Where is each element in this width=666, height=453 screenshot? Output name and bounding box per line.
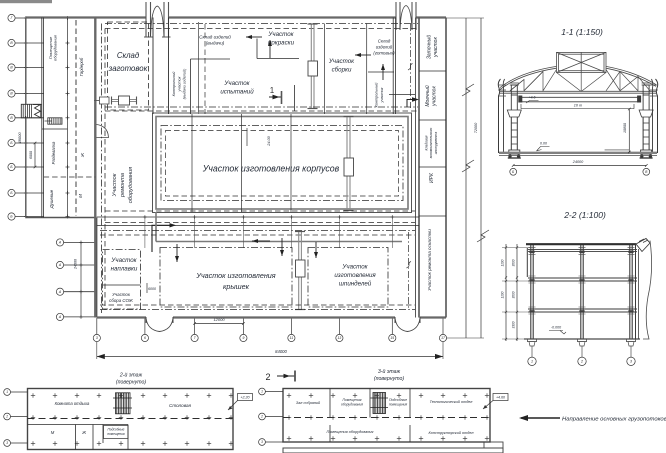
room label Кладовая вспом инструмента	[425, 128, 438, 159]
crane zone dashdot top lines	[105, 23, 418, 25]
transition dashed y211	[105, 210, 415, 212]
svg-text:сборки: сборки	[332, 66, 352, 73]
svg-text:3000: 3000	[512, 291, 516, 298]
flow arrow lower band 3	[314, 242, 318, 258]
section 1-1 axis circle left	[510, 168, 517, 175]
svg-text:Технологический отдел: Технологический отдел	[430, 400, 474, 404]
hall inner dashed rect 2	[166, 131, 399, 197]
svg-text:2: 2	[260, 415, 263, 419]
svg-text:(выдачи изделий): (выдачи изделий)	[183, 68, 187, 99]
svg-text:Помещения: Помещения	[343, 398, 362, 402]
cargo flow arrow	[519, 415, 560, 421]
dimension 24000 section	[512, 160, 648, 167]
svg-text:-0.000: -0.000	[551, 326, 561, 330]
dimension 6000 lower	[147, 283, 156, 293]
svg-text:Комната отдыха: Комната отдыха	[55, 401, 90, 406]
svg-text:24000: 24000	[74, 259, 78, 270]
L arrow to right rooms	[407, 97, 419, 107]
svg-text:(повернуто): (повернуто)	[116, 379, 146, 385]
svg-text:Участок: Участок	[110, 257, 137, 264]
break squiggle x410	[408, 64, 413, 71]
svg-text:Участок: Участок	[328, 58, 355, 65]
dimension 48000 left	[17, 132, 22, 144]
svg-text:3: 3	[630, 360, 632, 364]
strip2 outer walls	[283, 389, 490, 443]
strip1 mid partition dashed	[28, 418, 234, 420]
section 1-1 left column	[507, 83, 522, 158]
naplavka dashdot rect	[103, 250, 141, 309]
flow arrow lower band horizontal	[252, 239, 270, 243]
svg-text:Контрольный: Контрольный	[172, 71, 176, 97]
partition right room divider y120	[419, 119, 446, 121]
partition x294 short	[294, 85, 296, 111]
partition x393 double vertical	[392, 18, 394, 115]
partition annex y177 dashed	[44, 176, 96, 178]
svg-text:+2.20: +2.20	[240, 396, 249, 400]
partition x324 vertical	[324, 24, 326, 115]
section 1-1 left wall panel	[498, 79, 506, 153]
room label Помещение оборудования	[48, 34, 57, 61]
svg-text:3-й этаж: 3-й этаж	[378, 368, 401, 375]
svg-text:24000: 24000	[572, 160, 584, 164]
room label Участок ремонта оборудования	[112, 167, 134, 203]
partition y58 horiz	[257, 58, 299, 60]
svg-text:Участок ремонта оснастки: Участок ремонта оснастки	[427, 229, 432, 291]
arrow pokraska down	[268, 40, 272, 58]
svg-text:Склад: Склад	[378, 39, 391, 44]
svg-text:Участок: Участок	[341, 264, 368, 271]
svg-text:48000: 48000	[17, 132, 22, 144]
svg-text:84000: 84000	[275, 349, 287, 354]
wall left annex outer	[25, 18, 27, 105]
dimension 24.00 in hall	[247, 128, 271, 147]
svg-text:1100: 1100	[501, 259, 505, 266]
hall left dashdot boundary	[101, 24, 103, 314]
svg-text:(готовых): (готовых)	[373, 50, 395, 55]
svg-text:участок: участок	[380, 87, 384, 103]
svg-text:М: М	[51, 430, 55, 435]
svg-text:1-1 (1:150): 1-1 (1:150)	[561, 27, 603, 37]
wall top main	[26, 16, 146, 18]
wall annex inner double	[41, 18, 43, 218]
svg-text:3: 3	[6, 441, 8, 445]
partition dashed x76	[75, 20, 77, 216]
svg-text:Ж: Ж	[80, 152, 85, 158]
svg-text:испытаний: испытаний	[220, 88, 254, 95]
wall bottom main segment 3	[420, 316, 446, 318]
svg-text:72000: 72000	[474, 122, 478, 133]
dashdot boundary x408	[408, 232, 410, 309]
arrow control up	[381, 64, 385, 80]
section 2-2 left wall stub	[526, 248, 528, 277]
svg-text:24.00: 24.00	[267, 135, 271, 146]
wall top segment 2	[169, 16, 397, 18]
wall main left thick x95	[94, 18, 96, 318]
svg-text:6000: 6000	[29, 151, 33, 159]
wall lower band left x96.5	[96, 218, 98, 318]
hall main rect inner wall	[156, 117, 408, 210]
section 2-2 axis circles	[528, 357, 635, 365]
arrow into sklad izdeliy	[246, 35, 262, 39]
partition annex y129	[42, 128, 68, 130]
section 2-2 right wall	[636, 239, 652, 340]
grid row circles А lower left	[56, 239, 97, 321]
svg-text:Склад изделий: Склад изделий	[199, 34, 231, 40]
svg-text:Участок: Участок	[267, 31, 294, 38]
svg-text:участок: участок	[177, 76, 181, 92]
svg-text:10 т: 10 т	[574, 103, 582, 107]
svg-text:3: 3	[96, 336, 98, 340]
svg-text:Контрольный: Контрольный	[375, 82, 379, 108]
svg-text:оборудования: оборудования	[53, 34, 58, 61]
hall main rect outer	[153, 113, 412, 213]
equipment line lower band x300	[295, 231, 305, 310]
svg-text:М: М	[78, 194, 83, 198]
section 1-1 axis circle right	[643, 168, 650, 175]
partition right room divider y167	[419, 166, 446, 168]
strip1 axis circles left	[4, 389, 28, 447]
flow arrow lower band 2	[280, 238, 284, 256]
svg-text:0.00: 0.00	[540, 142, 547, 146]
svg-text:Раздевалка: Раздевалка	[51, 141, 56, 164]
flow arrow lower band 1	[175, 244, 179, 262]
svg-text:Конструкторский отдел: Конструкторский отдел	[429, 431, 475, 435]
section 2-2 columns	[528, 245, 636, 357]
strip1 vertical partitions	[76, 425, 128, 450]
svg-text:3300: 3300	[512, 321, 516, 328]
wall annex bottom	[26, 217, 97, 219]
scan artifact bar	[0, 0, 52, 3]
svg-text:Подсобные: Подсобные	[389, 398, 407, 402]
svg-text:9: 9	[242, 336, 244, 340]
dashdot vertical x410	[410, 24, 412, 108]
partition x366 vertical	[366, 24, 368, 115]
door bottom-right double leaf	[395, 317, 420, 332]
entrance porch with steps left wall	[21, 104, 41, 118]
grid line axis x67	[67, 18, 69, 218]
corridor line y94	[389, 94, 415, 96]
machine at left wall y100	[94, 97, 109, 104]
svg-text:инструмента: инструмента	[434, 132, 438, 155]
kryshek dashdot rect	[160, 248, 292, 308]
lower band top partition	[97, 225, 419, 227]
grid column circles bottom row	[93, 318, 446, 342]
lower band dashdot lines	[100, 230, 415, 232]
svg-text:Подсобные: Подсобные	[108, 427, 125, 431]
strip2 vertical partitions	[330, 389, 410, 443]
dimension 6000 left small	[29, 142, 36, 169]
svg-text:помещения: помещения	[107, 432, 124, 436]
strip2 lower wing	[283, 448, 503, 453]
lower band wall y241	[156, 241, 402, 243]
svg-text:Направление основных грузопото: Направление основных грузопотоков	[562, 417, 666, 423]
svg-text:помещения: помещения	[389, 402, 407, 406]
svg-text:Душевые: Душевые	[49, 189, 54, 209]
svg-text:2-й этаж: 2-й этаж	[119, 371, 143, 378]
door annex to hall arc	[97, 125, 109, 138]
svg-text:(выдачи): (выдачи)	[206, 41, 225, 46]
svg-text:2: 2	[265, 372, 270, 382]
partition right room divider y216	[419, 215, 446, 217]
svg-text:Кладовая: Кладовая	[425, 135, 429, 150]
door top-right double leaf	[396, 2, 416, 30]
svg-text:оборудования: оборудования	[341, 402, 363, 406]
svg-text:1: 1	[6, 390, 8, 394]
strip1 column crosses	[31, 393, 233, 445]
svg-text:Участок изготовления: Участок изготовления	[195, 271, 275, 280]
room label Участок ремонта оснастки	[427, 229, 432, 291]
svg-text:17: 17	[441, 336, 445, 340]
svg-text:1: 1	[270, 86, 275, 95]
dimension 12000 between axes 7 and 9	[193, 317, 244, 325]
svg-text:1100: 1100	[501, 291, 505, 298]
svg-text:изделий: изделий	[376, 45, 393, 50]
svg-text:13: 13	[338, 336, 342, 340]
wall right outer x446	[445, 18, 447, 318]
room label Моечный участок	[424, 85, 438, 107]
stair flight symbol annex	[45, 118, 63, 124]
flow arrow L-shape below hall	[152, 223, 176, 252]
elevation 0.00	[537, 142, 550, 151]
svg-text:Моечный: Моечный	[424, 85, 431, 106]
room label Душевые	[49, 189, 54, 209]
svg-text:Склад: Склад	[117, 51, 140, 60]
partition naplavka y285	[103, 284, 141, 286]
section 1-1 floor underline	[499, 155, 657, 157]
partition x168 top band	[168, 18, 170, 115]
strip1 stair hatch	[113, 393, 132, 414]
equipment line hall center x348	[344, 116, 354, 211]
svg-text:15: 15	[390, 336, 394, 340]
strip2 elevation flag +4.60	[483, 394, 508, 410]
svg-text:2: 2	[5, 415, 8, 419]
strip2 stair hatch	[371, 393, 389, 414]
section 2-2 floor slabs	[524, 244, 640, 339]
equipment conveyor sklad zagotovok	[111, 96, 137, 105]
wall bottom main segment 2	[173, 316, 395, 318]
svg-text:6: 6	[144, 336, 146, 340]
section 1-1 crane beam	[520, 97, 641, 108]
svg-text:Участок: Участок	[223, 80, 250, 87]
room label Контрольный участок выдачи	[172, 68, 186, 99]
truss section 1-1	[500, 52, 656, 93]
svg-text:2: 2	[580, 360, 583, 364]
svg-text:6000: 6000	[148, 287, 156, 291]
svg-text:1: 1	[531, 360, 533, 364]
svg-text:сбора СОЖ: сбора СОЖ	[109, 298, 134, 303]
svg-text:шпинделей: шпинделей	[339, 281, 372, 288]
shpindel dashdot rect	[308, 248, 388, 308]
section 2-2 left dimension chains	[501, 244, 531, 341]
strip2 axis circles left	[259, 388, 283, 445]
skl zag dashed rect	[108, 22, 149, 110]
axis verticals transition	[143, 215, 394, 248]
hall left wall extension down	[155, 212, 157, 242]
partition right room divider y71	[419, 70, 446, 72]
strip1 lower partition	[28, 424, 129, 426]
strip2 mid partition dashed	[283, 417, 490, 419]
dimension 24000 lower-left	[74, 242, 82, 317]
arrow to sklad gotovyh	[355, 53, 371, 57]
strip1 outer walls	[28, 389, 234, 450]
partition x205 dashed	[204, 24, 206, 114]
svg-text:заготовок: заготовок	[108, 64, 148, 73]
door bottom-left double leaf	[146, 317, 173, 332]
hall inner dashdot rect	[161, 126, 403, 201]
svg-text:крышек: крышек	[223, 282, 250, 291]
strip1 room label Подсобные помещения	[104, 426, 129, 439]
strip1 elevation flag +2.20	[228, 394, 253, 411]
dimension 84000 overall bottom	[97, 342, 443, 359]
partition y72 top band	[368, 71, 394, 73]
elevation +4.6	[526, 96, 539, 103]
lower band bottom dashdot	[100, 304, 415, 306]
svg-text:вспомогательного: вспомогательного	[429, 128, 433, 159]
svg-text:Б: Б	[512, 170, 514, 174]
room label Заточный участок	[425, 35, 439, 60]
dimension 72000 right vertical	[446, 18, 489, 338]
strip2 bottom step right	[484, 442, 503, 448]
partition x153 top band	[152, 18, 154, 115]
svg-text:3: 3	[261, 440, 263, 444]
svg-text:Участок изготовления корпусов: Участок изготовления корпусов	[202, 164, 340, 174]
svg-text:ИРК: ИРК	[429, 172, 435, 183]
equipment line top band x312	[308, 24, 318, 110]
svg-text:+4.60: +4.60	[496, 396, 505, 400]
svg-text:+4.6: +4.6	[528, 96, 535, 100]
partition x190 top band	[190, 59, 192, 114]
svg-text:2-2 (1:100): 2-2 (1:100)	[563, 210, 606, 220]
grid row circles left column	[8, 14, 70, 220]
dimension 10800 vertical	[605, 108, 631, 154]
wall top segment 3	[416, 16, 446, 18]
svg-text:покраски: покраски	[268, 39, 295, 46]
section 1-1 right wall panel	[650, 79, 658, 153]
transition dashed y222	[105, 222, 415, 224]
svg-text:Участок: Участок	[112, 173, 118, 197]
wall bottom main segment 1	[97, 316, 146, 318]
svg-text:наплавки: наплавки	[111, 265, 138, 272]
svg-text:изготовления: изготовления	[334, 272, 376, 279]
section mark 1 top	[269, 86, 282, 104]
svg-text:ремонта: ремонта	[120, 173, 126, 198]
room label ИРК	[429, 172, 435, 183]
dashdot boundary above hall	[105, 106, 418, 108]
wall right rooms inner x419	[418, 18, 420, 318]
break squiggle x408	[407, 262, 412, 269]
svg-text:оборудования: оборудования	[128, 167, 134, 203]
svg-text:Столовая: Столовая	[169, 403, 192, 408]
svg-text:Гардероб: Гардероб	[79, 57, 84, 76]
svg-text:(повернуто): (повернуто)	[374, 376, 404, 382]
svg-text:участок: участок	[433, 37, 439, 58]
section 1-1 right column	[637, 83, 653, 158]
room label Раздевалка	[51, 141, 56, 164]
hall inner column lines	[192, 114, 291, 212]
svg-text:Помещения оборудования: Помещения оборудования	[327, 430, 374, 434]
room label Контрольный участок right	[375, 82, 384, 108]
svg-text:3000: 3000	[512, 259, 516, 266]
svg-text:1: 1	[261, 390, 263, 394]
section mark 2	[265, 371, 295, 383]
strip2 column crosses	[287, 393, 489, 440]
transition thin y217	[97, 216, 419, 218]
svg-text:участок: участок	[432, 86, 438, 107]
partition horiz y59	[191, 58, 231, 60]
partition x257 vertical	[256, 39, 258, 59]
partition x198 top band	[198, 22, 200, 114]
svg-text:11: 11	[290, 336, 294, 340]
svg-text:Участок: Участок	[112, 292, 131, 297]
svg-text:7: 7	[194, 336, 196, 340]
room label Гардероб	[79, 57, 84, 76]
svg-text:Зал собраний: Зал собраний	[296, 401, 321, 405]
door top-left double leaf	[144, 2, 171, 37]
section 2-2 elevation -0.000	[549, 326, 566, 334]
wall right rooms second x415	[415, 18, 417, 318]
section 1-1 floor slab	[499, 152, 657, 154]
svg-text:10800: 10800	[623, 123, 627, 133]
svg-text:Заточный: Заточный	[425, 35, 432, 60]
